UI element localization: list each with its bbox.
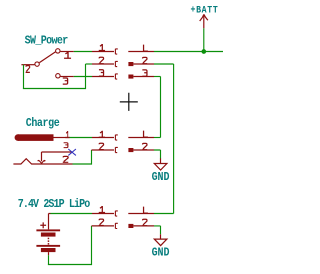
connector J3 pin2 number 2 [99, 143, 104, 149]
switch S1 pin1 contact circle [56, 49, 60, 53]
connector J4 pin1 line [128, 137, 154, 139]
connector J1 pin2 clamp [115, 61, 117, 66]
connector J1 pin1 clamp [115, 49, 117, 54]
wire up to J1 pin2 row [85, 64, 87, 89]
switch S1 pin1 line [60, 51, 74, 53]
battery B1 positive stub [49, 214, 51, 230]
junction +BATT [201, 49, 206, 54]
connector J3 pin1 number 1 [99, 131, 105, 138]
jack X1 pin1 number 1 [65, 131, 69, 138]
connector J4 pin2 pad square [128, 148, 133, 152]
connector J3 pin1 line [92, 137, 114, 139]
connector J1 pin2 line [92, 63, 114, 65]
ground stub GND2 [160, 234, 162, 239]
connector J6 pin2 number 2 [142, 219, 147, 225]
battery B1 plate long top [36, 229, 60, 231]
switch S1 pin3 line [61, 76, 74, 78]
connector J2 pin1 label L [144, 45, 148, 52]
wire jack pin2 right [73, 163, 92, 165]
connector J4 pin2 line [133, 149, 154, 151]
connector J2 pin1 line [128, 51, 154, 53]
connector J4 pin2 number 2 [142, 143, 147, 149]
connector J6 pin2 pad square [128, 224, 133, 228]
connector J5 pin1 number 1 [99, 206, 105, 213]
wire into J4 pin1 [154, 137, 161, 139]
connector J1 pin1 line [92, 51, 114, 53]
connector J5 pin2 number 2 [99, 219, 104, 225]
battery B1 plus sign [40, 222, 46, 228]
ground symbol GND2 [154, 239, 167, 246]
wire long vertical to LiPo row1 [173, 64, 175, 214]
wire bottom horizontal [23, 88, 86, 90]
switch S1 pin1 number 1 [64, 52, 71, 59]
no-connect cross pin3 [68, 149, 76, 155]
connector J6 pin1 line [128, 213, 154, 215]
svg-text:GND: GND [152, 172, 170, 185]
jack X1 pin3 line [42, 152, 72, 161]
connector J6 pin1 label L [144, 207, 148, 214]
svg-text:SW_Power: SW_Power [25, 35, 69, 48]
battery B1 negative stub [48, 252, 50, 255]
switch S1 lever [39, 52, 55, 63]
sheet origin cross [120, 93, 138, 111]
wire J6 pin2 to GND2 [154, 226, 161, 234]
connector J2 pin2 pad square [128, 62, 133, 66]
wire J4 pin2 to GND1 [154, 150, 161, 159]
connector J2 pin3 pad square [128, 75, 133, 79]
switch S1 pin2 number 2 [26, 66, 30, 73]
connector J3 pin1 clamp [115, 135, 117, 140]
connector J4 pin1 label L [144, 131, 148, 138]
supply +BATT stem [203, 14, 205, 28]
jack X1 pin3 number 3 [64, 143, 68, 148]
wire switch pin2 down [23, 65, 25, 89]
jack X1 pin3 arrowhead [38, 160, 46, 163]
connector J6 pin2 line [133, 225, 154, 227]
wire +BATT vertical [203, 28, 205, 51]
wire battery minus down [48, 255, 50, 264]
svg-text:7.4V 2S1P LiPo: 7.4V 2S1P LiPo [18, 198, 91, 211]
connector J5 pin2 clamp [115, 223, 117, 228]
wire J2 pin2 right [154, 63, 174, 65]
jack X1 barrel body [18, 134, 54, 141]
wire switch pin3 to J1 pin3 [74, 76, 92, 78]
wire into J6 pin1 [154, 213, 174, 215]
jack X1 pin2 number 2 [63, 156, 69, 162]
wire battery plus to J5 pin1 [51, 213, 93, 215]
wire vertical to Charge row1 [160, 77, 162, 138]
jack X1 pin2 contact [13, 159, 72, 164]
connector J1 pin3 clamp [115, 74, 117, 79]
connector J2 pin2 line [133, 63, 154, 65]
wire jack pin1 to J3 pin1 [70, 137, 93, 139]
wire into J1 pin2 [86, 63, 93, 65]
connector J2 pin3 line [133, 76, 154, 78]
wire up to J3 pin2 row [91, 150, 93, 165]
connector J1 pin3 line [92, 76, 114, 78]
switch S1 pin3 contact circle [56, 74, 60, 78]
battery B1 plate long bottom [36, 245, 60, 247]
ground stub GND1 [160, 158, 162, 163]
jack X1 barrel cap [15, 134, 22, 141]
jack X1 pin1 line [54, 137, 70, 139]
connector J5 pin1 clamp [115, 211, 117, 216]
battery B1 dots [48, 238, 50, 240]
switch S1 pin3 number 3 [63, 78, 68, 84]
battery B1 plate short top [41, 233, 56, 237]
connector J2 pin3 number 3 [142, 70, 147, 76]
wire J2 pin1 to +BATT rail [154, 51, 223, 53]
connector J5 pin1 line [92, 213, 114, 215]
connector J1 pin1 number 1 [99, 44, 105, 51]
connector J3 pin2 clamp [115, 147, 117, 152]
ground symbol GND1 [154, 164, 167, 171]
svg-text:GND: GND [152, 247, 170, 260]
wire J2 pin3 right [154, 76, 161, 78]
supply +BATT arrowhead [200, 14, 208, 21]
svg-text:Charge: Charge [26, 117, 61, 130]
switch S1 pin2 line [21, 64, 34, 66]
battery B1 plate short bottom [41, 248, 56, 252]
wire switch pin1 to J1 pin1 [74, 51, 92, 53]
connector J2 pin2 number 2 [142, 57, 147, 63]
connector J5 pin2 line [92, 225, 115, 227]
wire up to J5 pin2 row [91, 226, 93, 265]
switch S1 pin2 contact circle [35, 62, 39, 66]
connector J1 pin2 number 2 [99, 57, 104, 63]
connector J1 pin3 number 3 [99, 70, 104, 76]
svg-text:+BATT: +BATT [191, 5, 219, 16]
connector J3 pin2 line [92, 149, 115, 151]
wire bottom horizontal [48, 264, 92, 266]
